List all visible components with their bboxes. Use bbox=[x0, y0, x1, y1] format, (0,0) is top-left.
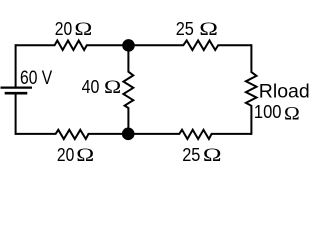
svg-text:25: 25 bbox=[182, 144, 200, 162]
svg-text:40: 40 bbox=[82, 76, 100, 97]
svg-text:Ω: Ω bbox=[76, 144, 94, 162]
svg-text:Ω: Ω bbox=[203, 144, 222, 162]
svg-text:20: 20 bbox=[55, 18, 72, 40]
svg-text:Ω: Ω bbox=[284, 103, 300, 124]
svg-text:25: 25 bbox=[176, 18, 194, 39]
svg-text:Ω: Ω bbox=[74, 18, 92, 39]
svg-text:20: 20 bbox=[57, 144, 74, 162]
svg-text:Ω: Ω bbox=[104, 76, 121, 98]
svg-text:100: 100 bbox=[254, 101, 282, 122]
svg-text:Ω: Ω bbox=[199, 18, 218, 40]
svg-text:60 V: 60 V bbox=[20, 66, 52, 88]
svg-text:Rload: Rload bbox=[259, 80, 310, 102]
